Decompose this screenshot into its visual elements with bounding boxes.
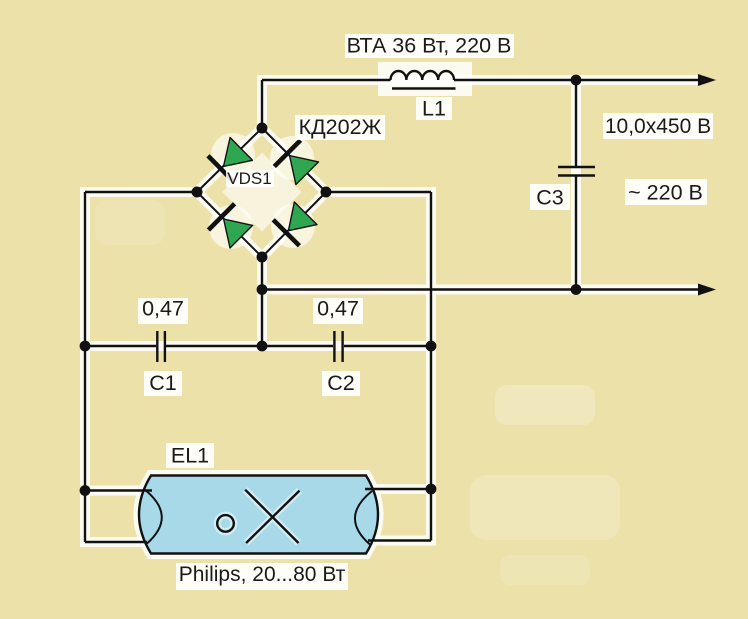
wire: C1 to C2 junction	[166, 345, 333, 347]
wire: lamp top-right pin	[365, 488, 431, 490]
label Philips 20...80 Vt	[176, 563, 348, 590]
label BTA 36 Vt 220 V	[345, 34, 514, 59]
wire: top output line left segment	[262, 79, 391, 81]
wire: C2 right	[344, 345, 431, 347]
label KD202Zh	[295, 115, 385, 140]
lamp interior circle	[217, 515, 234, 532]
node: bridge top	[257, 123, 268, 134]
capacitor C2	[334, 331, 342, 362]
wire: C1 row left	[85, 345, 156, 347]
diode VD2 (top-right arm)	[274, 140, 318, 184]
wire: top output line right segment with arrow shaft	[454, 79, 700, 81]
svg-text:КД202Ж: КД202Ж	[299, 115, 382, 139]
wire: lamp top-left pin	[85, 489, 152, 491]
lamp left end cap arc	[144, 489, 162, 544]
wire: lamp bottom-right pin	[368, 539, 431, 541]
node: right rail C2 junction	[426, 341, 437, 352]
white block behind inductor	[378, 62, 472, 96]
svg-text:C3: C3	[536, 186, 564, 210]
node: C3 bottom junction	[571, 284, 582, 295]
diode VD3 (bottom-left arm)	[208, 204, 252, 248]
svg-text:C2: C2	[327, 371, 354, 395]
label 10,0x450 V	[603, 113, 713, 139]
label VDS1	[226, 169, 274, 188]
lamp interior X mark	[245, 490, 299, 543]
lamp interior halo	[217, 490, 299, 543]
capacitor C3	[558, 80, 595, 290]
svg-text:ВТА 36 Вт, 220 В: ВТА 36 Вт, 220 В	[347, 34, 512, 58]
label 0,47 C2 value	[313, 297, 363, 325]
wire: bottom output line	[262, 288, 700, 290]
white halo under wires	[85, 80, 698, 542]
node: right rail lamp junction	[426, 484, 437, 495]
label C3	[530, 184, 570, 210]
svg-text:L1: L1	[422, 97, 446, 121]
node: bottom line start junction	[257, 284, 268, 295]
svg-text:Philips, 20...80 Вт: Philips, 20...80 Вт	[179, 563, 346, 586]
bridge VDS1 diamond wires	[197, 128, 326, 257]
wire: bridge right to right rail	[326, 191, 431, 193]
node: bridge right	[321, 187, 332, 198]
label ~220 V	[625, 179, 707, 205]
svg-text:10,0x450 В: 10,0x450 В	[605, 115, 711, 138]
label C2	[322, 371, 360, 396]
wire: bridge bottom down	[261, 257, 263, 346]
lamp right end cap arc	[355, 491, 372, 545]
label C1	[144, 371, 182, 396]
lamp EL1 tube	[139, 476, 378, 554]
node: bridge left	[192, 187, 203, 198]
diode VD4 (bottom-right arm)	[273, 202, 317, 246]
node: bridge bottom	[257, 252, 268, 263]
wire: lamp bottom-left pin	[85, 541, 147, 543]
wire: bridge top feed	[261, 80, 263, 128]
node: left rail lamp junction	[80, 485, 91, 496]
node: left rail C1 junction	[80, 341, 91, 352]
diode VD1 (top-left arm)	[208, 138, 253, 183]
node: C3 top junction	[571, 75, 582, 86]
wire: bridge left to left rail	[85, 191, 197, 193]
arrow output 1	[698, 74, 716, 86]
inductor L1	[391, 71, 456, 89]
capacitor C1	[157, 331, 165, 362]
wire: left rail vertical	[84, 192, 86, 542]
svg-text:C1: C1	[149, 371, 176, 395]
wire: right rail vertical	[430, 192, 432, 541]
label L1	[416, 97, 452, 121]
arrow output 2	[698, 284, 716, 296]
label 0,47 C1 value	[138, 297, 188, 325]
svg-text:VDS1: VDS1	[227, 169, 271, 188]
svg-text:0,47: 0,47	[142, 297, 184, 321]
white smudge patches (scan artifacts)	[95, 133, 620, 585]
svg-text:EL1: EL1	[171, 444, 209, 468]
node: C1-C2 junction	[257, 341, 268, 352]
label EL1	[166, 443, 214, 468]
svg-text:0,47: 0,47	[317, 297, 359, 321]
svg-text:~ 220 В: ~ 220 В	[628, 181, 703, 205]
